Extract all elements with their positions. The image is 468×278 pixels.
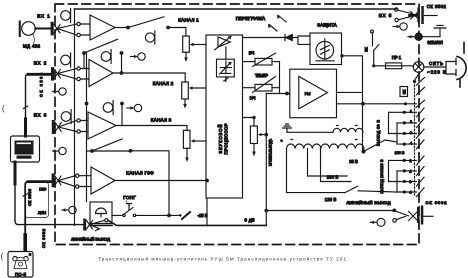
cable screen tick [23,106,27,109]
wire mixing row below A3 [87,150,131,152]
jack symbol channel 2 [131,53,146,60]
wire contacts to amp A2 [80,69,89,80]
connector stub wire [425,15,438,17]
wire protection box to mains switch [342,56,363,93]
selector group2 row 2 [397,170,417,172]
wire gong box to switch [112,214,123,216]
wiper arrow [191,139,195,142]
wire node to A2 output wire [121,53,123,73]
node [120,51,124,55]
node [264,133,268,137]
protection unit box [310,33,342,65]
wire BX2 plug fan [57,69,76,80]
mains switch ВК [371,30,379,66]
wire fan to earth connector [398,10,412,20]
BX2 external cable to radio receiver [28,73,51,76]
jack symbol line output right [370,218,385,226]
node wire end [392,209,396,213]
mains plug symbol [457,57,466,80]
connector BX1 socket [51,22,54,36]
wire PA output [337,92,363,151]
wire R4 bottom to ground arrow [253,144,255,153]
connector plug cross [87,221,93,230]
sound processor unit box [206,35,243,198]
tone control HF: wire [243,61,256,63]
wire plug fan [58,176,75,187]
gong unit box [90,202,112,224]
svg-text:2: 2 [410,119,412,124]
transformer T7 [103,101,113,115]
connector BX3 socket [52,120,55,134]
cable group outline [25,182,49,218]
arrow down [183,104,187,109]
contact node [76,174,79,177]
node ground bus end [395,8,398,11]
wire A1 output [115,27,128,29]
wire R2 to ground arrow [184,99,186,105]
-15V terminal mark [182,212,190,219]
svg-text:СЕТЬ: СЕТЬ [429,61,443,66]
wiper wire R2 to processor [191,87,206,89]
wire PA aux to selector [337,103,417,105]
jack symbol below BX2 [52,88,66,95]
winding polarity marks [291,126,357,140]
svg-text:УРОВЕНЬ ВЫХОДА: УРОВЕНЬ ВЫХОДА [269,139,273,166]
push switch SB1 [123,204,136,217]
node [129,149,133,153]
svg-text:ВХ 3: ВХ 3 [34,113,47,118]
mains indicator lamp [413,62,424,73]
connector BX3 plug cross [55,123,61,132]
selector drive contact [413,80,416,83]
svg-text:ЛИНЕЙНЫЙ ВЫХОД: ЛИНЕЙНЫЙ ВЫХОД [71,237,110,242]
svg-text:СК 0502: СК 0502 [427,4,447,9]
node [166,26,170,30]
earth connector plug pin [410,14,419,17]
plug cord stub [463,43,465,54]
PS-5 intercom cable [25,182,28,236]
wire A3 output to fader R3 [116,126,187,131]
svg-text:ГОНГ: ГОНГ [123,195,136,200]
contact node [105,219,108,222]
dashed enclosure border of mixer-amplifier unit [55,4,419,245]
arrow down [185,158,189,163]
receiver line-out cable [14,162,17,184]
arrow down [252,152,256,157]
svg-text:ПЕРЕГРУЗКА: ПЕРЕГРУЗКА [236,16,266,21]
node [395,18,398,21]
jack symbol below BX3 [52,147,66,154]
wire node to A3 output wire [121,104,123,126]
node [205,179,209,183]
op-amp A4 gong channel [91,167,115,194]
contact node [77,119,80,122]
svg-text:ВХ 1: ВХ 1 [37,14,50,19]
op-amp A3 channel 3 [88,112,116,139]
bus wire (second left vertical) [86,53,88,202]
selector group2 row 1 [389,159,417,161]
radio receiver box [11,136,40,162]
wire linear input to line bus [108,220,266,225]
svg-text:ВЫХОД 100/120 В: ВЫХОД 100/120 В [380,159,384,194]
switch S1 blade channel 1 [128,17,164,28]
wiper wire R1 to processor [192,44,206,46]
svg-text:(: ( [1,252,4,261]
wire ground to transformer primary [287,131,333,133]
contact node [76,185,79,188]
wire R4 wiper to PA input and line out [260,94,267,226]
selector group1 row 2 [397,122,417,124]
svg-text:ВЫХОД 30 В: ВЫХОД 30 В [377,119,381,146]
bell symbol [96,208,107,216]
contact node [77,67,80,70]
PS-5 telephone box [8,252,33,278]
wire node to plug [396,211,409,216]
node [90,149,94,153]
power amplifier box [290,69,337,118]
contact node [77,22,80,25]
op-amp A1 channel 1 [90,15,115,40]
wire switch to fuse [374,65,386,67]
limiter symbol inside processor [215,36,232,60]
node [167,214,171,218]
PA triangle [299,76,328,108]
svg-text:ЗВУКОВОЙ: ЗВУКОВОЙ [218,125,223,154]
fuse ПР1 [386,63,402,69]
svg-text:1: 1 [410,109,412,114]
selector group1 row 4 [397,143,417,145]
contact node [77,77,80,80]
wiper wire R3 to processor [193,140,206,142]
jack symbol lower (plugged) [408,33,422,40]
svg-text:3: 3 [409,179,411,184]
svg-text:НЧ: НЧ [250,96,256,101]
selector group2 row 3 [389,181,417,183]
ground symbol at output transformer [283,124,292,132]
wire contact to connector [396,216,405,219]
wire mic to BX1 connector [35,28,50,30]
telephone icon [13,256,29,268]
wire PA input bus [266,93,290,95]
contact node [393,219,397,223]
wire A2 output to fader R2 [113,73,185,82]
node [404,102,407,105]
svg-text:0 дБ: 0 дБ [245,218,255,223]
svg-text:120 В: 120 В [325,197,337,202]
wire to fader R1 [168,28,186,37]
svg-text:КАНАЛ 3: КАНАЛ 3 [151,118,172,123]
cable thick end [24,119,27,136]
switch S3 blade [92,139,122,151]
output connector plug cross [409,212,418,221]
fader potentiometer R1 [183,36,190,52]
svg-text:СК 0602: СК 0602 [42,229,46,248]
wire processor to protection box [243,36,311,44]
switch BK box [400,87,408,97]
wiper arrow [189,86,193,89]
svg-text:ЗАЩИТА: ЗАЩИТА [317,23,337,28]
diode VD1 [285,34,292,40]
svg-text:ПС-5: ПС-5 [15,272,27,277]
selector mechanical link (dotted) [414,82,416,196]
earth electrode symbol [434,25,446,36]
node [126,26,130,30]
transformer T5 [145,31,154,44]
node [252,116,255,119]
wire R3 to ground arrow [186,148,188,158]
earth connector plug cross [411,12,419,20]
connector plug cross [55,176,61,185]
svg-text:СК 0502: СК 0502 [426,200,448,205]
wire BX1 plug fan to contacts [57,24,77,35]
ground bus wire (top horizontal) [75,8,397,10]
wire under gong box [90,224,112,226]
output connector socket bars [417,207,420,223]
transformer tap wire 2 [321,149,352,182]
corner dot [28,253,31,256]
fader potentiometer R2 [182,82,189,99]
wire BX3 plug fan [58,121,77,132]
wire R1 to ground arrow [185,52,187,58]
switch S2 blade [84,39,118,53]
selector group2 row 4 [397,191,417,193]
thermistor-style HF tone resistor [253,53,276,66]
overload LED arrows [270,16,287,32]
contact node [77,130,80,133]
120V selector blade [345,186,358,192]
svg-text:100 В: 100 В [395,151,405,155]
wire 120V line to selector group [358,191,397,192]
wire stub right edge [459,80,461,87]
svg-text:КАНАЛ 2: КАНАЛ 2 [153,81,174,86]
wire plug fan [90,220,105,224]
svg-text:ВЧ: ВЧ [249,51,255,56]
svg-text:ТЕМБР: ТЕМБР [255,73,268,78]
svg-text:КАНАЛ ГЗФ: КАНАЛ ГЗФ [126,171,154,176]
svg-text:2: 2 [409,169,411,174]
wire LF resistor [243,87,280,89]
wiper arrow R4 [258,133,262,136]
svg-text:100 В: 100 В [327,175,339,180]
arrow down [184,58,188,63]
wire lamp to mains plug [424,62,456,75]
svg-text:КАНАЛ 1: КАНАЛ 1 [178,17,199,22]
node [361,102,365,106]
svg-text:СК 0503: СК 0503 [28,189,32,206]
linear input connector socket [83,219,86,231]
jack symbol channel 3 [127,104,142,111]
channel 4 (gong) input cable from PS-5 [28,180,51,183]
selector group 2 bus [389,160,398,192]
svg-text:1: 1 [409,158,411,163]
node [372,64,375,67]
connector stub wire [424,215,434,217]
node [340,54,343,57]
svg-text:ВХ 5: ВХ 5 [379,13,392,18]
selector group 1 bus [389,112,398,144]
op-amp A2 channel 2 [89,60,113,87]
svg-text:ГЛФ: ГЛФ [39,188,46,192]
jack symbol ЛИН [62,206,76,213]
wire node down to -15V rail [131,151,170,216]
transformer T6 [101,50,111,64]
jack symbol near earth connector [393,23,407,30]
node [264,209,268,213]
earth connector socket bars [417,8,420,23]
selector group1 row 3 [389,133,417,135]
wire connector to earth electrode [423,36,441,38]
wire contacts to amp A4 [79,176,91,187]
wiper arrow [190,43,194,46]
wire level pot from processor [243,118,255,127]
line output wire to output connector [266,210,394,212]
node [82,51,86,55]
output transformer primary winding [333,128,363,132]
sub-box compressor symbol [217,59,235,81]
wire fuse to lamp [402,65,414,67]
svg-text:ЛИН: ЛИН [38,211,46,215]
wire contacts to amp A3 [80,121,88,132]
wire node to A2 input [83,53,85,69]
contact node [77,33,80,36]
receiver icon [15,141,34,159]
wire A4 output to processor [115,180,206,182]
svg-text:УМ: УМ [305,91,311,96]
transformer T3 [61,110,71,124]
connector BX1 plug cross [54,25,60,34]
svg-text:ПРОЦЕССОР: ПРОЦЕССОР [224,123,229,154]
wire secondary left end to 120V switch [287,149,346,193]
node [120,71,124,75]
wire HF resistor to PA input [272,62,280,94]
connector BX2 socket [51,67,54,81]
svg-text:-15 В: -15 В [197,213,207,218]
svg-text:~220 В: ~220 В [427,70,446,75]
output transformer secondary winding [287,144,364,149]
protection relay symbol [316,39,334,61]
svg-text:ВХ 2: ВХ 2 [34,61,47,66]
level potentiometer R4 [250,126,257,144]
leader line [126,201,130,207]
wire contacts to amp A1 [80,24,90,35]
node [285,92,289,96]
transformer T2 [61,53,71,67]
svg-text:ПР 1: ПР 1 [392,55,402,60]
transformer T1 [61,9,71,23]
node on bus [85,102,89,106]
svg-text:ЗЕМЛЯ: ЗЕМЛЯ [427,40,443,45]
contact blade [416,100,425,107]
svg-text:МД 482: МД 482 [23,44,41,49]
svg-text:ЛИНЕЙНЫЙ ВЫХОД: ЛИНЕЙНЫЙ ВЫХОД [347,200,391,205]
wire switch to -15V [136,214,181,216]
microphone BM1 [19,21,36,44]
wire lamp to selector drive [415,73,420,81]
node [120,102,124,106]
fader potentiometer R3 [183,130,190,148]
ground bus wire (left vertical) [74,9,76,225]
cable screen tick [23,194,28,197]
transformer tap wire 1 [308,149,348,176]
svg-text:(: ( [2,104,5,113]
svg-text:30 В: 30 В [349,159,358,164]
thermistor-style LF tone resistor [253,77,276,93]
node secondary right end [363,149,365,152]
selector group1 row 1 [389,111,417,113]
connector BX2 plug cross [54,70,60,79]
wire processor corner to line bus [206,198,208,225]
connector socket channel 4 [52,173,55,187]
wire 30V output to selector [364,140,398,152]
svg-text:3: 3 [410,130,412,135]
